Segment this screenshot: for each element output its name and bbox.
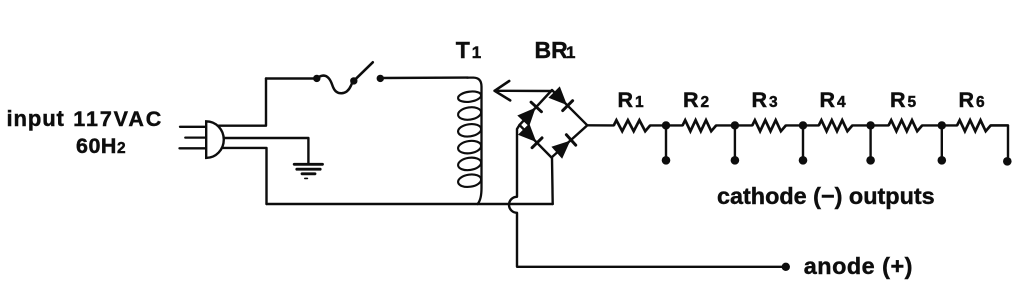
label R1: [618, 88, 645, 112]
svg-text:R: R: [683, 88, 699, 112]
wire: plug neutral down to bottom bus: [212, 148, 267, 204]
label R2: [683, 88, 709, 112]
label R6: [959, 88, 986, 112]
junction: anode terminal dot: [782, 263, 790, 271]
wire: R1 to node: [650, 124, 666, 126]
cathode output stub 5: [938, 125, 947, 164]
svg-text:1: 1: [472, 43, 481, 62]
junction node 4: [866, 121, 874, 129]
bridge rectifier BR1: [518, 87, 587, 158]
junction node 2: [731, 121, 739, 129]
label T1: [456, 37, 481, 63]
resistor R1: [614, 120, 650, 131]
wire: node 4 to R5: [871, 124, 889, 126]
cathode output stub 1: [662, 125, 671, 164]
resistor R5: [889, 120, 923, 131]
svg-text:60H: 60H: [76, 134, 117, 158]
svg-text:T: T: [456, 37, 470, 63]
BR1 diode lower-left: [519, 124, 542, 147]
wire: switch to T1 top: [380, 76, 468, 79]
resistor R2: [683, 120, 717, 131]
BR1 diode upper-left: [518, 102, 541, 125]
wire: node 5 to R6: [942, 124, 957, 126]
cathode output stub 6 (chain end): [991, 125, 1012, 165]
svg-text:5: 5: [908, 94, 917, 111]
svg-text:R: R: [890, 88, 906, 112]
svg-text:3: 3: [769, 94, 778, 111]
cathode output stub 2: [731, 125, 740, 164]
resistor R6: [957, 120, 991, 131]
label: input 117VAC 60Hz: [7, 106, 164, 158]
wire: R6 to node: [991, 124, 1008, 126]
svg-text:2: 2: [117, 140, 126, 157]
transformer T1 (variac winding): [457, 78, 482, 204]
junction node 3: [799, 121, 807, 129]
svg-text:4: 4: [837, 94, 846, 111]
svg-text:cathode (−) outputs: cathode (−) outputs: [717, 183, 935, 209]
BR1 diode lower-right: [552, 135, 575, 158]
cathode output stub 4: [866, 125, 875, 164]
wire: BR1 left corner to anode terminal (hops over bus): [509, 125, 784, 267]
variac wiper arrow to BR1 top: [495, 81, 552, 100]
svg-text:BR: BR: [535, 37, 569, 63]
wire: BR1 + output to resistor chain: [587, 124, 614, 126]
svg-text:R: R: [618, 88, 634, 112]
svg-text:1: 1: [635, 94, 644, 111]
svg-text:R: R: [820, 88, 836, 112]
switch (on/off, open): [313, 62, 384, 93]
svg-text:R: R: [959, 88, 975, 112]
svg-text:1: 1: [566, 43, 575, 62]
wire: node 2 to R3: [735, 124, 752, 126]
resistor R4: [819, 120, 853, 131]
junction node 5: [938, 121, 946, 129]
wire: node 1 to R2: [666, 124, 683, 126]
svg-text:117VAC: 117VAC: [73, 107, 163, 131]
label R4: [820, 88, 847, 112]
wire: plug hot to switch rail: [212, 79, 266, 126]
svg-text:input: input: [7, 106, 65, 131]
wire: plug middle to ground: [212, 138, 308, 164]
svg-text:R: R: [752, 88, 768, 112]
label R3: [752, 88, 779, 112]
BR1 diode upper-right: [549, 87, 572, 110]
wire: BR1 bottom corner to bus: [551, 158, 554, 205]
wire: rail to switch: [266, 77, 317, 79]
cathode output stub 3: [799, 125, 808, 164]
junction node 1: [662, 121, 670, 129]
resistor R3: [752, 120, 786, 131]
svg-text:2: 2: [701, 94, 710, 111]
bottom bus wire: [267, 203, 553, 205]
label R5: [890, 88, 917, 112]
AC plug (117VAC input): [180, 121, 224, 158]
svg-text:anode (+): anode (+): [804, 253, 913, 279]
svg-text:6: 6: [976, 94, 985, 111]
wire: node 3 to R4: [803, 124, 819, 126]
wire: R3 to node: [786, 124, 803, 126]
wire: R2 to node: [716, 124, 735, 126]
wire: R4 to node: [852, 124, 870, 126]
ground symbol: [294, 164, 322, 178]
label BR1: [535, 37, 576, 63]
wire: R5 to node: [922, 124, 942, 126]
